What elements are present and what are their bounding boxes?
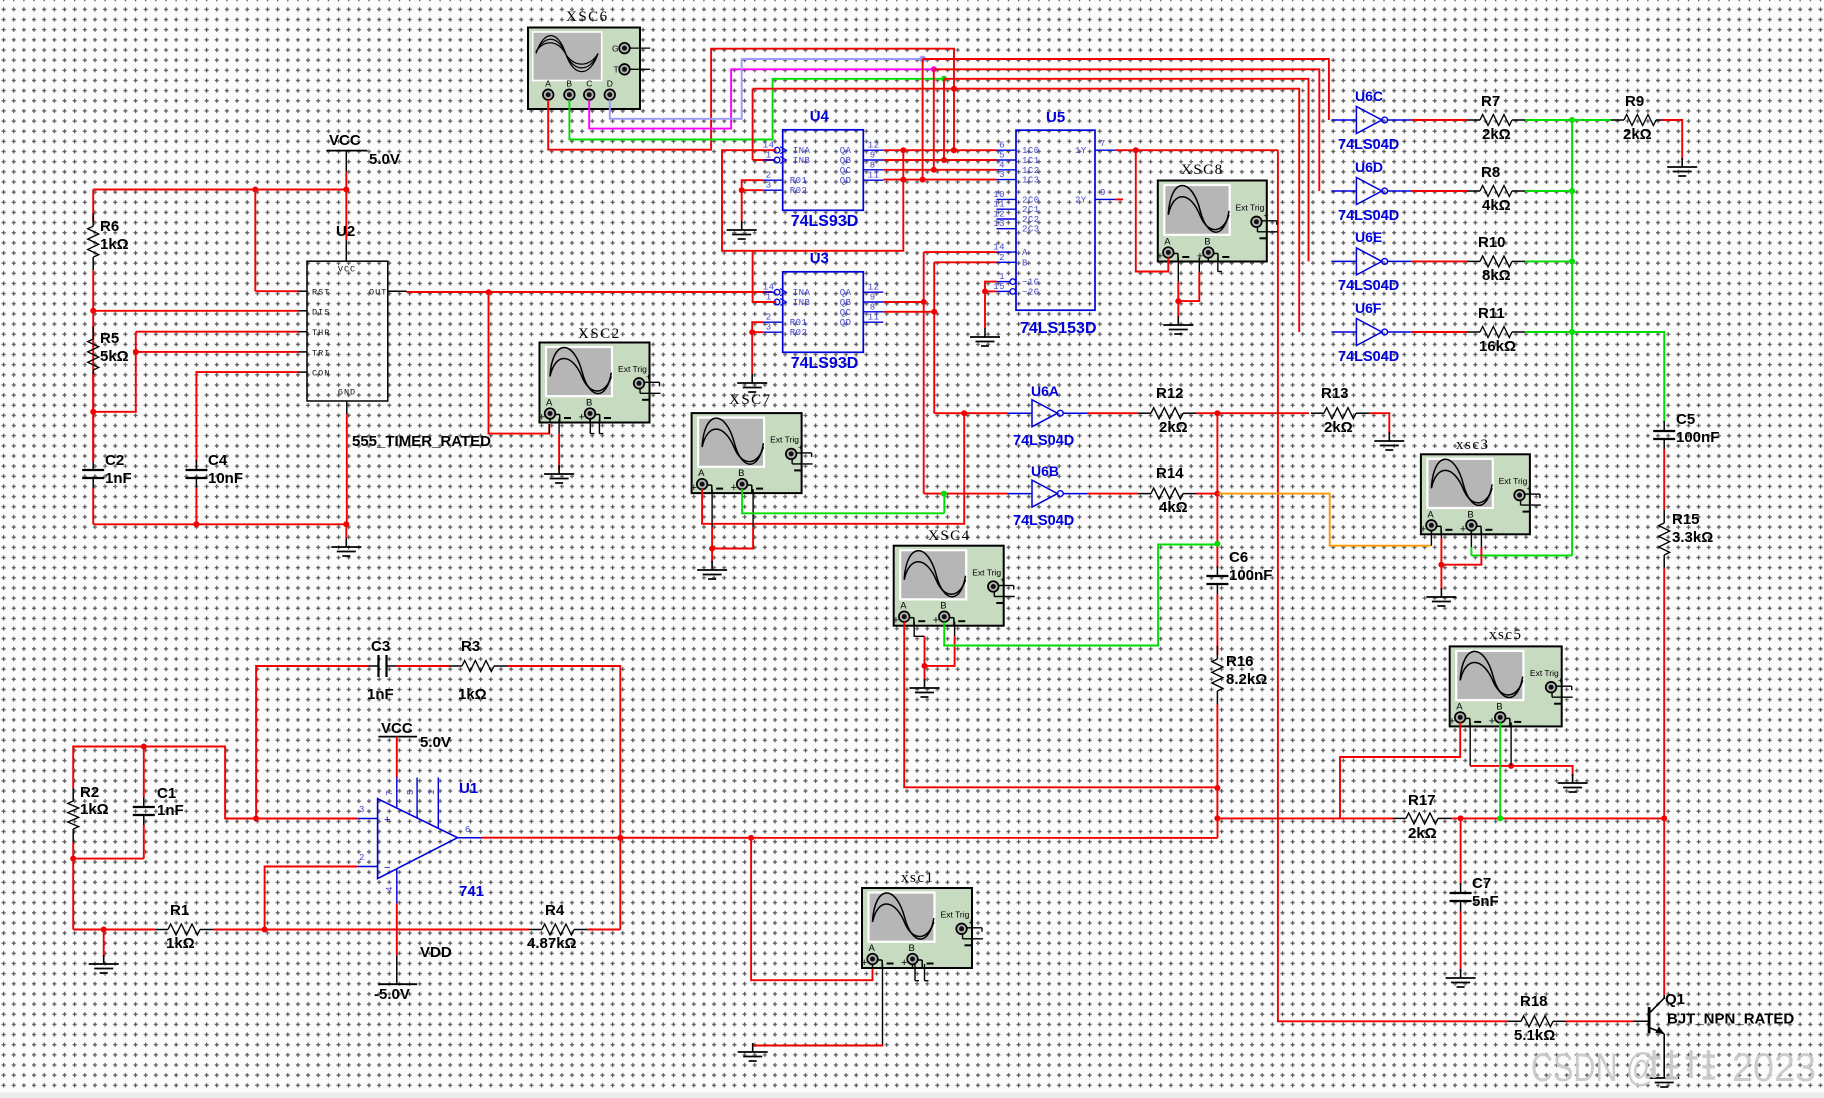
svg-text:Ext Trig: Ext Trig [972, 567, 1001, 577]
svg-text:R13: R13 [1321, 385, 1349, 402]
svg-text:1kΩ: 1kΩ [100, 236, 129, 253]
svg-text:4kΩ: 4kΩ [1482, 197, 1511, 214]
svg-text:4: 4 [385, 887, 395, 892]
svg-text:2C1: 2C1 [1022, 205, 1040, 215]
svg-text:5: 5 [406, 790, 416, 795]
svg-text:1C2: 1C2 [1022, 166, 1040, 176]
svg-text:R14: R14 [1156, 465, 1184, 482]
svg-text:B: B [940, 601, 946, 612]
svg-text:1: 1 [427, 790, 437, 795]
svg-text:3: 3 [766, 181, 772, 191]
svg-text:+: + [731, 482, 737, 494]
svg-text:B: B [1496, 701, 1502, 712]
svg-text:8kΩ: 8kΩ [1482, 267, 1511, 284]
svg-text:R18: R18 [1520, 993, 1548, 1010]
svg-text:+: + [1449, 715, 1455, 727]
svg-text:11: 11 [868, 313, 880, 323]
svg-text:D: D [607, 79, 613, 89]
svg-text:B: B [566, 79, 572, 89]
svg-text:74LS93D: 74LS93D [791, 213, 859, 230]
svg-text:74LS04D: 74LS04D [1338, 349, 1399, 365]
svg-text:C1: C1 [157, 785, 176, 802]
svg-text:C2: C2 [105, 452, 124, 469]
svg-text:+: + [1263, 211, 1268, 220]
svg-text:U6D: U6D [1355, 159, 1383, 175]
svg-text:A: A [869, 943, 876, 954]
svg-text:U3: U3 [810, 250, 829, 267]
svg-text:R9: R9 [1625, 93, 1644, 110]
svg-text:A: A [1427, 509, 1434, 520]
svg-text:9: 9 [1100, 188, 1106, 198]
svg-text:3.3kΩ: 3.3kΩ [1672, 529, 1713, 546]
svg-text:1C0: 1C0 [1022, 146, 1040, 156]
svg-text:5.0V: 5.0V [420, 734, 451, 751]
svg-text:+: + [1558, 676, 1563, 685]
svg-text:3: 3 [766, 323, 772, 333]
svg-text:2kΩ: 2kΩ [1324, 419, 1353, 436]
svg-text:QA: QA [840, 288, 852, 298]
svg-text:CON: CON [312, 369, 330, 379]
svg-text:xsc1: xsc1 [901, 870, 935, 886]
svg-text:QA: QA [840, 146, 852, 156]
svg-text:12: 12 [993, 210, 1005, 220]
svg-text:12: 12 [868, 283, 880, 293]
svg-text:A: A [900, 601, 907, 612]
svg-text:−: − [384, 862, 390, 874]
svg-text:Ext Trig: Ext Trig [618, 364, 647, 374]
svg-text:CSDN @: CSDN @ [1531, 1046, 1657, 1090]
svg-text:7: 7 [385, 791, 395, 796]
svg-text:2C2: 2C2 [1022, 215, 1040, 225]
svg-text:INB: INB [793, 156, 811, 166]
svg-text:xsc3: xsc3 [1456, 437, 1490, 453]
svg-text:+: + [1489, 715, 1495, 727]
svg-text:Ext Trig: Ext Trig [941, 910, 970, 920]
svg-text:74LS04D: 74LS04D [1013, 433, 1074, 449]
svg-text:2C0: 2C0 [1022, 195, 1040, 205]
svg-text:+: + [893, 615, 899, 627]
svg-text:R10: R10 [1478, 234, 1506, 251]
svg-text:C5: C5 [1676, 411, 1695, 428]
svg-text:+: + [539, 412, 545, 424]
svg-text:10: 10 [993, 190, 1005, 200]
svg-text:C4: C4 [208, 452, 228, 469]
svg-text:R4: R4 [545, 902, 565, 919]
svg-text:12: 12 [868, 141, 880, 151]
svg-text:8: 8 [870, 302, 876, 312]
svg-text:R6: R6 [100, 218, 119, 235]
svg-text:1: 1 [999, 272, 1005, 282]
svg-text:B: B [738, 468, 744, 479]
svg-text:G: G [612, 44, 619, 54]
svg-text:2Y: 2Y [1075, 195, 1087, 205]
svg-text:XSC7: XSC7 [729, 392, 772, 408]
svg-text:B: B [1204, 237, 1210, 248]
svg-text:741: 741 [459, 883, 484, 900]
svg-text:5.0V: 5.0V [369, 151, 400, 168]
svg-text:6: 6 [999, 141, 1005, 151]
svg-text:14: 14 [993, 243, 1005, 253]
svg-text:74LS04D: 74LS04D [1013, 513, 1074, 529]
svg-text:R8: R8 [1481, 164, 1500, 181]
svg-text:B: B [1467, 509, 1473, 520]
svg-text:14: 14 [763, 141, 775, 151]
svg-text:C: C [586, 79, 592, 89]
svg-text:VDD: VDD [420, 944, 452, 961]
svg-text:INA: INA [793, 146, 811, 156]
svg-text:~1G: ~1G [1022, 278, 1040, 288]
svg-text:10nF: 10nF [208, 470, 243, 487]
svg-text:9: 9 [870, 151, 876, 161]
svg-text:4: 4 [999, 160, 1005, 170]
svg-text:+: + [933, 615, 939, 627]
svg-text:7: 7 [1100, 139, 1106, 149]
svg-text:+: + [1420, 523, 1426, 535]
svg-text:R02: R02 [790, 328, 808, 338]
svg-text:+: + [861, 957, 867, 969]
svg-text:74LS93D: 74LS93D [791, 355, 859, 372]
svg-text:Ext Trig: Ext Trig [770, 435, 799, 445]
svg-text:9: 9 [870, 293, 876, 303]
svg-text:VCC: VCC [338, 265, 356, 275]
svg-text:INA: INA [793, 288, 811, 298]
svg-text:2: 2 [766, 171, 772, 181]
svg-text:C6: C6 [1229, 549, 1248, 566]
svg-text:+: + [646, 372, 651, 381]
svg-text:B: B [909, 943, 915, 954]
svg-text:8.2kΩ: 8.2kΩ [1226, 671, 1267, 688]
svg-text:+: + [384, 814, 390, 826]
svg-text:R3: R3 [461, 638, 480, 655]
svg-text:A: A [1456, 701, 1463, 712]
svg-text:R01: R01 [790, 176, 808, 186]
svg-text:U6A: U6A [1031, 383, 1059, 399]
svg-text:4.87kΩ: 4.87kΩ [527, 935, 577, 952]
svg-text:+: + [691, 482, 697, 494]
svg-text:INB: INB [793, 298, 811, 308]
svg-text:2: 2 [359, 853, 365, 863]
svg-text:T: T [614, 65, 619, 75]
svg-text:~2G: ~2G [1022, 287, 1040, 297]
svg-text:5nF: 5nF [1472, 893, 1499, 910]
svg-text:VCC: VCC [329, 132, 361, 149]
svg-text:xsc5: xsc5 [1489, 627, 1523, 643]
svg-text:74LS04D: 74LS04D [1338, 208, 1399, 224]
svg-text:XSC6: XSC6 [566, 9, 609, 25]
svg-text:15: 15 [993, 282, 1005, 292]
svg-text:BJT_NPN_RATED: BJT_NPN_RATED [1667, 1011, 1794, 1028]
svg-text:+: + [1527, 484, 1532, 493]
svg-text:16kΩ: 16kΩ [1479, 338, 1516, 355]
svg-text:2C3: 2C3 [1022, 225, 1040, 235]
svg-text:XSC8: XSC8 [1181, 162, 1224, 178]
svg-text:74LS153D: 74LS153D [1020, 320, 1097, 337]
svg-text:+: + [1157, 251, 1163, 263]
svg-text:3: 3 [999, 170, 1005, 180]
svg-text:GND: GND [338, 388, 356, 398]
svg-text:1Y: 1Y [1075, 146, 1087, 156]
svg-text:+: + [579, 412, 585, 424]
svg-text:1: 1 [766, 293, 772, 303]
svg-text:RST: RST [312, 288, 330, 298]
svg-text:-5.0V: -5.0V [374, 986, 410, 1003]
svg-text:11: 11 [868, 171, 880, 181]
svg-text:VCC: VCC [381, 720, 413, 737]
svg-text:C7: C7 [1472, 875, 1491, 892]
svg-text:2023: 2023 [1732, 1046, 1816, 1090]
svg-text:2kΩ: 2kΩ [1159, 419, 1188, 436]
svg-text:2kΩ: 2kΩ [1482, 126, 1511, 143]
svg-text:5: 5 [999, 151, 1005, 161]
svg-text:1nF: 1nF [157, 802, 184, 819]
svg-text:1kΩ: 1kΩ [80, 801, 109, 818]
svg-text:8: 8 [870, 160, 876, 170]
svg-text:R17: R17 [1408, 792, 1436, 809]
svg-text:B: B [586, 398, 592, 409]
svg-text:5kΩ: 5kΩ [100, 348, 129, 365]
svg-text:1nF: 1nF [367, 686, 394, 703]
svg-text:Q1: Q1 [1665, 991, 1685, 1008]
svg-text:R11: R11 [1478, 305, 1505, 322]
svg-text:74LS04D: 74LS04D [1338, 278, 1399, 294]
svg-text:Ext Trig: Ext Trig [1235, 202, 1264, 212]
svg-text:R5: R5 [100, 330, 119, 347]
svg-text:+: + [969, 918, 974, 927]
svg-text:555_TIMER_RATED: 555_TIMER_RATED [352, 433, 491, 450]
svg-text:U6E: U6E [1355, 229, 1382, 245]
svg-text:1nF: 1nF [105, 470, 132, 487]
svg-text:+: + [1000, 576, 1005, 585]
svg-text:U6C: U6C [1355, 88, 1383, 104]
svg-text:100nF: 100nF [1676, 429, 1719, 446]
svg-text:1kΩ: 1kΩ [166, 935, 195, 952]
svg-text:R02: R02 [790, 186, 808, 196]
svg-text:100nF: 100nF [1229, 567, 1272, 584]
svg-text:A: A [545, 79, 551, 89]
svg-text:3: 3 [359, 805, 365, 815]
svg-text:+: + [901, 957, 907, 969]
svg-text:XSC2: XSC2 [578, 326, 621, 342]
svg-text:U5: U5 [1046, 109, 1065, 126]
svg-text:+: + [798, 443, 803, 452]
svg-text:R15: R15 [1672, 511, 1700, 528]
svg-text:R2: R2 [80, 784, 99, 801]
svg-text:14: 14 [763, 283, 775, 293]
svg-text:A: A [1022, 248, 1028, 258]
svg-text:1C3: 1C3 [1022, 176, 1040, 186]
svg-text:QD: QD [840, 176, 852, 186]
svg-text:Ext Trig: Ext Trig [1499, 476, 1528, 486]
svg-text:11: 11 [993, 200, 1005, 210]
svg-text:QB: QB [840, 298, 852, 308]
svg-text:+: + [1197, 251, 1203, 263]
svg-text:5.1kΩ: 5.1kΩ [1514, 1027, 1555, 1044]
svg-text:U4: U4 [810, 108, 830, 125]
svg-text:13: 13 [993, 219, 1005, 229]
svg-text:R7: R7 [1481, 93, 1500, 110]
svg-text:1kΩ: 1kΩ [458, 686, 487, 703]
svg-text:QC: QC [840, 308, 852, 318]
svg-text:A: A [698, 468, 705, 479]
svg-text:QD: QD [840, 318, 852, 328]
svg-text:R01: R01 [790, 318, 808, 328]
svg-text:R1: R1 [170, 902, 189, 919]
svg-text:A: A [1164, 237, 1171, 248]
svg-text:THR: THR [312, 328, 330, 338]
svg-text:OUT: OUT [369, 288, 387, 298]
svg-text:2: 2 [766, 313, 772, 323]
svg-text:C3: C3 [371, 638, 390, 655]
svg-text:XSC4: XSC4 [928, 528, 971, 544]
svg-text:1: 1 [766, 151, 772, 161]
svg-text:U6B: U6B [1031, 463, 1059, 479]
svg-text:DIS: DIS [312, 307, 330, 317]
svg-text:B: B [1022, 258, 1028, 268]
svg-text:U6F: U6F [1355, 300, 1382, 316]
svg-text:QB: QB [840, 156, 852, 166]
svg-text:R16: R16 [1226, 653, 1254, 670]
svg-text:6: 6 [465, 825, 471, 835]
svg-text:R12: R12 [1156, 385, 1184, 402]
svg-text:74LS04D: 74LS04D [1338, 137, 1399, 153]
svg-text:1C1: 1C1 [1022, 156, 1040, 166]
svg-text:U2: U2 [336, 223, 355, 240]
svg-text:A: A [546, 398, 553, 409]
svg-text:Ext Trig: Ext Trig [1530, 668, 1559, 678]
svg-text:TRI: TRI [312, 348, 330, 358]
svg-text:4kΩ: 4kΩ [1159, 499, 1188, 516]
svg-text:+: + [1460, 523, 1466, 535]
svg-text:2kΩ: 2kΩ [1408, 825, 1437, 842]
svg-text:U1: U1 [459, 780, 478, 797]
svg-text:QC: QC [840, 166, 852, 176]
svg-text:2kΩ: 2kΩ [1623, 126, 1652, 143]
svg-text:2: 2 [999, 253, 1005, 263]
